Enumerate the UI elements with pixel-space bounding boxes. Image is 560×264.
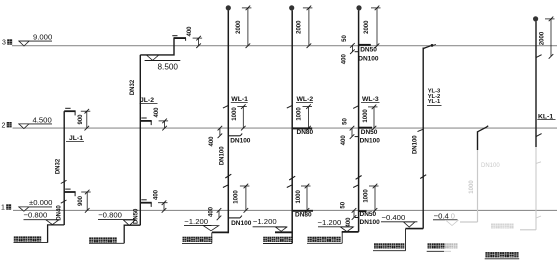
pipe size DN100 (WL-3 3F) [358, 55, 379, 62]
svg-text:400: 400 [209, 136, 215, 147]
svg-text:400: 400 [342, 54, 348, 65]
pipe size DN50 (WL-3 2F) [361, 129, 378, 136]
elevation marker -1.200 (WL-2) [253, 217, 287, 231]
svg-text:400: 400 [154, 189, 160, 200]
faded label mid [491, 224, 514, 229]
faucet JL-1 1F [64, 189, 75, 196]
labels YL-3 YL-2 YL-1 [427, 89, 442, 106]
label WL-1 [231, 96, 248, 103]
label leader (JL-1 outlet) [14, 242, 48, 244]
label text JL-1 outlet [14, 236, 41, 241]
svg-text:2000: 2000 [236, 20, 242, 34]
pipe size DN80 (WL-2 1F) [295, 211, 312, 218]
svg-text:−0.400: −0.400 [382, 213, 406, 222]
WL-3 outlet elbow [342, 231, 359, 233]
dimension 2000 (KL-1) [539, 17, 554, 59]
dimension 400 (JL-2 1F) [154, 189, 168, 212]
svg-text:DN50: DN50 [361, 129, 378, 136]
label leader (YL outlet) [373, 229, 406, 251]
label underline rain leader 2 [427, 250, 451, 252]
svg-text:400: 400 [187, 26, 193, 37]
branch tick KL-1 2F [536, 134, 542, 137]
pipe size DN100 (WL-1 2F branch) [230, 137, 251, 144]
floor label 2F [2, 122, 12, 129]
elevation marker 4.500 [18, 115, 52, 128]
svg-text:−1.200: −1.200 [318, 218, 342, 227]
svg-text:2000: 2000 [297, 20, 303, 34]
svg-text:DN32: DN32 [55, 158, 61, 174]
svg-text:2000: 2000 [539, 31, 545, 45]
svg-text:1000: 1000 [469, 180, 475, 194]
svg-text:YL-1: YL-1 [428, 99, 441, 105]
elevation marker -0.800 (JL-2) [98, 211, 135, 226]
svg-text:DN40: DN40 [56, 205, 62, 221]
svg-text:±0.000: ±0.000 [29, 198, 52, 207]
svg-text:400: 400 [341, 135, 347, 146]
faded marks KL-1 [536, 162, 541, 218]
fitting tick JL-1 lower [61, 200, 67, 203]
faucet JL-2 2F [140, 118, 151, 125]
branch tick KL-1 roof [536, 55, 542, 58]
svg-text:1000: 1000 [363, 109, 369, 123]
svg-text:DN100: DN100 [219, 146, 225, 165]
branch tick YL 2F [418, 129, 424, 131]
JL-1 outlet elbow [48, 225, 65, 243]
svg-text:JL-2: JL-2 [140, 97, 154, 104]
svg-text:WL-1: WL-1 [231, 96, 248, 103]
pipe size DN100 (WL-3 2F) [360, 137, 381, 144]
dimension 1000 (WL-1 above 1F) [233, 184, 249, 213]
YL outlet elbow [406, 228, 424, 230]
JL-2 upper offset [140, 38, 186, 55]
label WL-3 [361, 96, 380, 103]
svg-text:9.000: 9.000 [33, 32, 52, 41]
branch stub WL-3 below 3F [355, 51, 359, 53]
elevation marker 9.000 [18, 32, 52, 46]
break mark YL [420, 175, 426, 179]
dimension 400 (WL-3 1F) [346, 208, 356, 227]
label text WL-1 outlet [183, 237, 213, 242]
svg-text:2: 2 [2, 122, 6, 129]
label text WL-3 outlet [308, 237, 341, 242]
label JL-2 [140, 97, 158, 104]
svg-text:−0.800: −0.800 [24, 211, 48, 220]
svg-text:50: 50 [342, 35, 348, 42]
JL-2 outlet elbow [124, 225, 140, 243]
elevation marker +-0.000 [18, 198, 52, 211]
label leader (WL-2 outlet) [263, 243, 292, 245]
svg-text:DN100: DN100 [360, 219, 381, 226]
elevation marker -1.200 (WL-1) [184, 217, 219, 231]
fitting tick JL-1 upper [61, 180, 67, 183]
elevation marker -1.200 (WL-3) [318, 218, 354, 231]
break mark WL-1 [225, 174, 231, 178]
vent cap WL-2 [289, 5, 294, 10]
pipe size DN100 (WL-1 1F branch) [231, 220, 252, 227]
svg-text:1000: 1000 [297, 107, 303, 121]
faded dim 1000 [469, 180, 475, 194]
pipe size DN32 (JL-1) [55, 158, 61, 174]
pipe size DN100 (WL-1 vertical) [219, 146, 225, 165]
svg-text:−0.4: −0.4 [434, 211, 450, 220]
svg-text:DN100: DN100 [230, 137, 251, 144]
floor line 2F (4.500) [13, 127, 558, 129]
svg-text:DN32: DN32 [130, 79, 136, 95]
svg-text:3: 3 [2, 40, 6, 47]
break mark WL-3 [356, 176, 362, 180]
svg-text:900: 900 [78, 195, 84, 206]
label leader (WL-3 outlet) [307, 232, 342, 243]
svg-text:400: 400 [209, 206, 215, 217]
svg-text:1000: 1000 [363, 189, 369, 203]
dimension 400 (WL-3 3F) [342, 43, 355, 64]
elevation marker -0.800 (JL-1) [24, 211, 59, 225]
floor label 3F [2, 39, 12, 46]
svg-text:1: 1 [1, 205, 5, 212]
floor line 3F (9.000) [12, 45, 557, 47]
faucet JL-2 1F [140, 200, 151, 207]
branch bar WL-3 2F [359, 127, 372, 129]
break mark WL-2 [289, 176, 295, 180]
svg-text:DN50: DN50 [133, 208, 139, 224]
dimension 400 (WL-3 2F) [341, 126, 354, 146]
dimension 50 (WL-3 3F) [342, 35, 348, 42]
riser WL-3 pipe [358, 10, 360, 232]
svg-text:JL-1: JL-1 [69, 135, 83, 142]
svg-text:0: 0 [451, 211, 455, 220]
pipe size DN100 (YL) [413, 135, 419, 154]
WL-2 outlet elbow [275, 231, 292, 233]
branch bar WL-2 2F [292, 127, 312, 129]
riser YL pipe [422, 48, 424, 229]
faucet JL-2 roof [172, 36, 186, 41]
dimension 1000 (WL-3 above 1F) [363, 184, 378, 213]
svg-text:DN100: DN100 [360, 137, 381, 144]
label text WL-2 outlet [263, 237, 292, 242]
dimension 900 (JL-1 above 2F) [78, 109, 90, 130]
floor label 1F [1, 204, 11, 211]
label leader (WL-1 outlet) [182, 232, 212, 243]
dimension 400 (WL-1 below 2F) [209, 126, 222, 147]
riser KL-1 pipe [535, 21, 537, 147]
faded text DN100 [481, 163, 500, 169]
label text rain outlet right [485, 252, 518, 257]
svg-text:DN50: DN50 [360, 46, 377, 53]
svg-text:−1.200: −1.200 [253, 217, 277, 226]
svg-text:8.500: 8.500 [158, 62, 179, 71]
pipe size DN80 (WL-2 2F) [297, 129, 314, 136]
rain leader 2 inlet [478, 126, 489, 150]
branch tick WL-3 1F [353, 185, 358, 188]
dimension 1000 (WL-2 above 1F) [296, 184, 311, 213]
branch stub WL-3 below 2F [355, 136, 359, 138]
riser JL-2 pipe [139, 55, 141, 225]
dimension 50 (WL-3 1F) [340, 201, 346, 208]
pipe size DN32 (JL-2) [130, 79, 136, 95]
svg-text:DN50: DN50 [360, 211, 377, 218]
svg-text:DN80: DN80 [295, 211, 312, 218]
svg-text:DN100: DN100 [358, 55, 379, 62]
branch stub WL-1 below 1F [228, 216, 242, 218]
svg-text:1000: 1000 [232, 107, 238, 121]
dimension 1000 (WL-3 above 2F) [363, 105, 378, 131]
pipe size DN50 (WL-3 3F) [360, 46, 377, 53]
label text rain leader 2 outlet (fading) [428, 243, 458, 248]
riser WL-1 pipe [227, 10, 229, 233]
dimension 400 (JL-2 2F) [154, 107, 168, 131]
svg-text:DN100: DN100 [231, 220, 252, 227]
branch tick WL-2 1F [287, 185, 292, 188]
svg-text:1000: 1000 [233, 190, 239, 204]
label text YL outlet [374, 243, 404, 248]
pipe size DN100 (WL-3 1F) [360, 219, 381, 226]
svg-text:400: 400 [154, 107, 160, 118]
branch bar WL-3 3F [359, 44, 371, 46]
dimension 2000 (WL-2 vent) [297, 6, 313, 48]
svg-text:1000: 1000 [296, 189, 302, 203]
dimension 400 (WL-1 below 1F) [209, 206, 222, 220]
label text JL-2 outlet [89, 237, 117, 242]
svg-text:DN100: DN100 [481, 163, 500, 169]
svg-text:DN100: DN100 [413, 135, 419, 154]
pipe size DN40 (JL-1) [56, 205, 62, 221]
riser KL-1 faded lower [520, 147, 536, 230]
rain leader 2 pipe faded [460, 150, 478, 222]
pipe size DN50 (WL-3 1F) [360, 211, 377, 218]
svg-text:−0.800: −0.800 [98, 211, 122, 220]
dimension 900 (JL-1 above 1F) [78, 190, 91, 213]
svg-text:900: 900 [78, 114, 84, 125]
dimension 1000 (WL-2 above 2F) [297, 104, 312, 130]
WL-1 outlet elbow [212, 231, 228, 233]
svg-text:4.500: 4.500 [33, 115, 52, 124]
vent cap WL-3 [356, 5, 361, 10]
branch tick WL-1 2F [223, 105, 228, 108]
svg-text:400: 400 [346, 217, 352, 228]
branch tick WL-2 2F [287, 105, 292, 108]
branch tick WL-3 2F [353, 106, 358, 109]
vent cap WL-1 [226, 5, 231, 10]
branch stub WL-1 below 2F [228, 134, 242, 136]
dimension 400 (JL-2 roof) [187, 26, 202, 48]
pipe size DN50 (JL-2) [133, 208, 139, 224]
branch bar WL-3 1F [359, 210, 367, 212]
dimension 1000 (WL-1 above 2F) [232, 104, 247, 130]
branch bar WL-2 1F [292, 210, 313, 212]
label leader (JL-2 outlet) [89, 242, 124, 244]
riser WL-2 pipe [291, 10, 293, 243]
svg-text:50: 50 [340, 201, 346, 208]
label WL-2 [296, 96, 313, 103]
branch tick WL-1 1F [223, 185, 228, 188]
elevation marker 8.500 [145, 55, 181, 71]
elevation marker -0.400 (YL) [381, 213, 417, 227]
svg-text:−1.200: −1.200 [184, 217, 208, 226]
dimension 50 (WL-3 2F) [343, 118, 349, 125]
svg-text:WL-3: WL-3 [362, 96, 379, 103]
floor line 1F (0.000) [13, 209, 557, 211]
YL roof inlet hook [423, 44, 436, 49]
label JL-1 [66, 135, 84, 142]
branch stub WL-3 below 1F [355, 217, 359, 219]
svg-text:50: 50 [343, 118, 349, 125]
riser JL-1 pipe [63, 111, 65, 225]
elevation marker -0.400 (rain leader 2) [433, 211, 458, 225]
vent cap KL-1 [533, 16, 538, 21]
faucet JL-1 3F [64, 108, 75, 115]
label KL-1 [537, 113, 555, 120]
svg-text:DN80: DN80 [297, 129, 314, 136]
dimension 2000 (WL-1 vent) [236, 6, 252, 48]
dimension 2000 (WL-3 vent) [364, 6, 380, 48]
label underline rain outlet right [485, 258, 520, 260]
svg-text:2000: 2000 [364, 20, 370, 34]
